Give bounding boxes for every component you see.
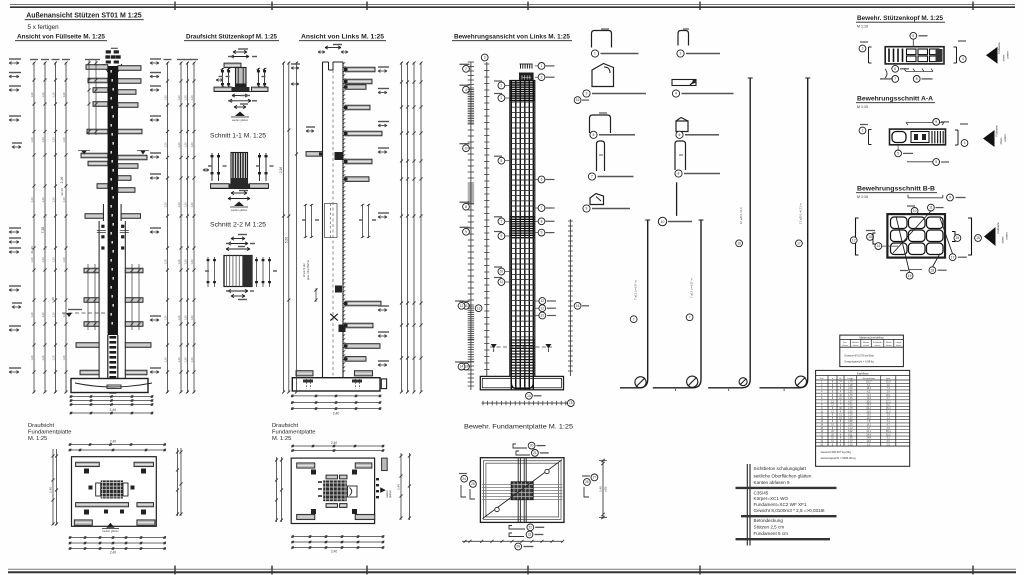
svg-text:1: 1 [501,84,503,88]
svg-text:7: 7 [541,206,543,210]
svg-text:9: 9 [541,231,543,235]
svg-text:16: 16 [976,236,980,240]
svg-text:21: 21 [533,451,537,455]
svg-text:7: 7 [591,175,593,179]
svg-text:25: 25 [471,482,475,486]
svg-text:27,2: 27,2 [886,401,891,403]
svg-text:glätten: glätten [389,490,392,498]
svg-text:1,20: 1,20 [51,355,55,361]
svg-text:6: 6 [894,67,896,71]
svg-text:30,6: 30,6 [866,401,871,403]
svg-text:M. 1:25: M. 1:25 [272,436,291,442]
svg-text:1,20: 1,20 [62,312,66,318]
svg-text:1,20: 1,20 [30,312,34,318]
svg-text:12: 12 [541,314,545,318]
svg-text:unten: unten [1004,232,1008,240]
svg-text:21,0: 21,0 [886,411,891,413]
svg-text:1,20: 1,20 [41,312,45,318]
svg-text:skizze: skizze [853,345,860,347]
svg-text:St.: St. [839,377,842,380]
svg-text:26: 26 [585,480,589,484]
svg-text:6: 6 [465,146,467,150]
svg-text:4: 4 [465,88,467,92]
svg-text:1,20: 1,20 [30,257,34,263]
svg-text:1,55: 1,55 [848,392,853,394]
svg-text:1,20: 1,20 [177,357,181,363]
svg-text:60,2: 60,2 [886,434,891,436]
svg-text:1,20: 1,20 [163,95,167,101]
svg-text:24,4: 24,4 [866,434,871,436]
svg-text:1,25: 1,25 [848,415,853,417]
svg-text:1,28: 1,28 [848,385,853,387]
svg-text:7: 7 [894,77,896,81]
svg-text:Gesamtgewicht = 0,98 kg: Gesamtgewicht = 0,98 kg [844,360,874,364]
svg-text:29,4: 29,4 [866,405,871,407]
svg-text:Anzahl: Anzahl [852,341,859,344]
svg-text:1,12: 1,12 [848,428,853,430]
svg-text:31,36: 31,36 [30,246,34,254]
svg-text:2,40: 2,40 [109,408,116,412]
svg-text:3: 3 [862,47,864,51]
svg-text:16: 16 [576,98,580,102]
svg-text:1,20: 1,20 [41,137,45,143]
svg-text:3: 3 [586,92,588,96]
svg-text:Gesamt=284,507 kg+5kg: Gesamt=284,507 kg+5kg [821,450,852,454]
svg-text:28: 28 [516,545,520,549]
svg-text:12: 12 [460,304,464,308]
svg-text:18,4: 18,4 [866,388,871,390]
svg-text:1,20: 1,20 [30,355,34,361]
svg-text:2: 2 [541,75,543,79]
svg-text:1,20: 1,20 [183,95,187,101]
svg-text:5 x fertigen: 5 x fertigen [28,24,60,31]
svg-text:4: 4 [962,57,964,61]
svg-text:1,72: 1,72 [848,441,853,443]
svg-text:1,20: 1,20 [163,357,167,363]
svg-text:2,40: 2,40 [333,412,340,416]
svg-text:skizze: skizze [842,345,849,347]
svg-text:Ansicht von Links M. 1:25: Ansicht von Links M. 1:25 [301,35,385,41]
svg-text:M. 1:25: M. 1:25 [28,436,47,442]
svg-text:15: 15 [569,401,573,405]
svg-text:131,7: 131,7 [866,382,872,384]
svg-text:unten: unten [1003,134,1007,142]
svg-text:8: 8 [916,77,918,81]
svg-text:9: 9 [465,230,467,234]
svg-text:2,40: 2,40 [397,484,401,490]
svg-text:Füllseite: Füllseite [996,222,1000,234]
svg-text:7: 7 [501,219,503,223]
svg-text:2: 2 [501,96,503,100]
svg-text:1,78: 1,78 [848,382,853,384]
svg-text:Gew.: Gew. [886,378,891,380]
svg-text:7: 7 [689,315,691,319]
svg-text:0,98: 0,98 [848,421,853,423]
svg-text:unten: unten [1006,51,1010,59]
svg-text:4: 4 [675,92,677,96]
svg-text:10: 10 [500,270,504,274]
svg-text:Körper=XC1 WO: Körper=XC1 WO [754,496,789,501]
svg-text:Breite: Breite [886,341,892,344]
svg-text:52,0: 52,0 [886,382,891,384]
svg-text:seitliche Oberflächen glätten: seitliche Oberflächen glätten [754,473,812,478]
svg-text:8: 8 [465,205,467,209]
svg-text:13: 13 [477,306,481,310]
svg-text:6,02: 6,02 [848,431,853,433]
svg-text:2: 2 [680,52,682,56]
svg-text:1: 1 [541,64,543,68]
svg-text:5: 5 [593,133,595,137]
svg-text:Bewehr. Stützenkopf M. 1:25: Bewehr. Stützenkopf M. 1:25 [857,15,944,22]
svg-text:2,40: 2,40 [599,486,603,492]
svg-text:1,20: 1,20 [51,312,55,318]
svg-text:1,20: 1,20 [62,257,66,263]
svg-text:1,78: 1,78 [848,408,853,410]
svg-text:2,40: 2,40 [49,487,53,493]
svg-text:4,37: 4,37 [848,401,853,403]
svg-text:1,12: 1,12 [848,418,853,420]
svg-text:2,40: 2,40 [331,441,337,445]
svg-text:Schnitt 1-1 M. 1:25: Schnitt 1-1 M. 1:25 [210,134,267,140]
svg-text:Fundament 5 cm: Fundament 5 cm [754,531,789,536]
svg-text:(40): (40) [604,486,608,491]
svg-text:1,20: 1,20 [183,142,187,148]
svg-text:1,20: 1,20 [51,257,55,263]
svg-text:5: 5 [501,159,503,163]
svg-text:11,2: 11,2 [867,418,872,420]
svg-text:12: 12 [852,238,856,242]
svg-text:Sichtbeton schalungsglatt: Sichtbeton schalungsglatt [754,466,807,471]
svg-text:15,0: 15,0 [866,415,871,417]
svg-text:8: 8 [678,172,680,176]
svg-text:1,20: 1,20 [183,315,187,321]
svg-text:9: 9 [935,160,937,164]
svg-text:9: 9 [501,234,503,238]
svg-text:2: 2 [862,129,864,133]
svg-text:1,20: 1,20 [30,137,34,143]
svg-text:15: 15 [956,236,960,240]
svg-text:1,20: 1,20 [177,95,181,101]
svg-text:9: 9 [586,207,588,211]
svg-text:1,20: 1,20 [190,315,194,321]
svg-text:Gesamt=5*0,078 qm/Stck: Gesamt=5*0,078 qm/Stck [844,354,874,358]
svg-text:Bewehr. Fundamentplatte M. 1:2: Bewehr. Fundamentplatte M. 1:25 [464,425,574,431]
svg-text:17 ø20 L=6,11 m: 17 ø20 L=6,11 m [799,202,803,224]
svg-text:7 ø12 L=4,37 m: 7 ø12 L=4,37 m [689,278,693,298]
svg-text:5: 5 [897,152,899,156]
svg-text:1,20: 1,20 [190,357,194,363]
svg-text:64,1: 64,1 [866,408,871,410]
svg-text:1,20: 1,20 [41,197,45,203]
svg-text:1,20: 1,20 [51,137,55,143]
svg-text:1,20: 1,20 [51,297,55,303]
svg-text:2,40: 2,40 [331,550,337,554]
svg-text:Fundamentplatte: Fundamentplatte [28,430,72,436]
svg-text:4,20: 4,20 [848,405,853,407]
svg-text:1,20: 1,20 [183,357,187,363]
svg-text:1,20: 1,20 [62,355,66,361]
svg-text:9: 9 [949,196,951,200]
svg-text:sauber glätten: sauber glätten [232,118,249,122]
svg-text:1: 1 [594,52,596,56]
svg-text:Pos.: Pos. [820,378,825,380]
svg-text:8: 8 [541,219,543,223]
svg-text:Gewicht 8,0100m3 * 2,5 =>0,03: Gewicht 8,0100m3 * 2,5 =>0,0316t [754,508,826,513]
svg-text:Mattenschneideliste: Mattenschneideliste [859,336,884,340]
svg-text:1,20: 1,20 [183,202,187,208]
svg-text:1,20: 1,20 [177,142,181,148]
svg-text:1,20: 1,20 [62,137,66,143]
svg-text:13,8: 13,8 [866,441,871,443]
svg-text:1,20: 1,20 [177,202,181,208]
svg-text:Schneide-: Schneide- [873,342,883,344]
svg-text:22: 22 [529,525,533,529]
svg-text:7 ø12 L=4,37 m: 7 ø12 L=4,37 m [634,280,638,300]
svg-text:14: 14 [527,394,531,398]
svg-text:32,16: 32,16 [60,188,64,196]
svg-text:28,1: 28,1 [886,395,891,397]
svg-text:Länge: Länge [896,342,903,344]
svg-text:Draufsicht Stützenkopf M. 1:25: Draufsicht Stützenkopf M. 1:25 [186,35,278,41]
svg-text:16: 16 [576,304,580,308]
svg-text:1,20: 1,20 [163,315,167,321]
svg-text:14: 14 [460,365,464,369]
svg-text:27: 27 [593,476,597,480]
svg-text:M 1:10: M 1:10 [857,105,868,109]
svg-text:14: 14 [877,244,881,248]
svg-text:7: 7 [633,317,635,321]
svg-text:1,20: 1,20 [163,259,167,265]
svg-text:Fundament=XC2 WF XF1: Fundament=XC2 WF XF1 [754,502,807,507]
svg-text:2: 2 [465,67,467,71]
svg-text:Bewehrungsschnitt A-A: Bewehrungsschnitt A-A [857,96,934,103]
svg-text:3: 3 [964,141,966,145]
svg-text:9: 9 [935,120,937,124]
svg-text:13: 13 [868,235,872,239]
svg-text:24,1: 24,1 [866,431,871,433]
svg-text:14,8: 14,8 [866,438,871,440]
svg-text:14,1: 14,1 [866,425,871,427]
svg-text:Draufsicht: Draufsicht [28,423,54,429]
svg-text:12: 12 [541,299,545,303]
svg-text:gew. Oberfläche: gew. Oberfläche [306,259,310,280]
svg-text:2,30: 2,30 [848,388,853,390]
svg-text:Füllseite: Füllseite [997,42,1001,54]
svg-text:1,20: 1,20 [183,259,187,265]
svg-text:17: 17 [797,241,801,245]
svg-text:1,78: 1,78 [848,395,853,397]
svg-text:5: 5 [912,34,914,38]
svg-text:skizze: skizze [863,345,870,347]
svg-text:11: 11 [929,206,933,210]
svg-text:23,6: 23,6 [866,411,871,413]
svg-text:1,20: 1,20 [30,197,34,203]
svg-text:Ansicht von Füllseite M. 1:25: Ansicht von Füllseite M. 1:25 [17,35,106,41]
svg-text:C35/45: C35/45 [754,491,769,496]
svg-text:2,40: 2,40 [110,440,116,444]
svg-text:5,90: 5,90 [848,411,853,413]
svg-text:Stützen 2,5 cm: Stützen 2,5 cm [754,525,785,530]
svg-text:26,1: 26,1 [886,405,891,407]
svg-text:3: 3 [484,56,486,60]
svg-text:Außenansicht Stützen ST01 M 1:: Außenansicht Stützen ST01 M 1:25 [26,13,142,20]
svg-text:25,3: 25,3 [886,408,891,410]
svg-text:M 1:10: M 1:10 [857,195,868,199]
svg-text:1,20: 1,20 [51,197,55,203]
svg-text:7,36: 7,36 [41,227,45,234]
svg-text:2,35: 2,35 [848,425,853,427]
svg-text:Betondeckung: Betondeckung [754,518,784,523]
svg-text:Matten: Matten [863,341,870,344]
svg-text:59,4: 59,4 [886,431,891,433]
svg-text:Schnitt 2-2 M 1:25: Schnitt 2-2 M 1:25 [210,223,267,229]
svg-text:14,5: 14,5 [866,398,871,400]
svg-text:Stahlliste: Stahlliste [857,371,869,375]
svg-text:24: 24 [462,477,466,481]
svg-text:16: 16 [737,241,741,245]
svg-text:10: 10 [913,209,917,213]
svg-text:sauber glätten: sauber glätten [102,529,119,533]
svg-text:1,20: 1,20 [190,142,194,148]
svg-text:Pos.: Pos. [843,342,848,344]
svg-text:1,20: 1,20 [163,202,167,208]
svg-text:1,20: 1,20 [190,95,194,101]
svg-text:1,20: 1,20 [177,259,181,265]
svg-text:6: 6 [679,133,681,137]
svg-text:Füllseite: Füllseite [995,125,999,137]
svg-text:12: 12 [541,306,545,310]
svg-text:23: 23 [528,533,532,537]
svg-text:5,56: 5,56 [285,237,289,243]
svg-text:1,20: 1,20 [177,315,181,321]
svg-text:skizze: skizze [886,345,893,347]
svg-text:17: 17 [951,255,955,259]
svg-text:16 ø20 L=6,0: 16 ø20 L=6,0 [739,207,743,224]
svg-text:M 1:10: M 1:10 [857,25,868,29]
svg-text:71,2: 71,2 [866,395,871,397]
svg-text:2,40: 2,40 [110,551,116,555]
svg-text:Gesamtgewicht = 0289,98 kg: Gesamtgewicht = 0289,98 kg [821,456,856,460]
svg-text:Länge: Länge [847,378,854,380]
svg-text:skizze: skizze [896,345,903,347]
svg-text:1,20: 1,20 [51,92,55,98]
svg-text:11: 11 [500,280,504,284]
svg-text:1,45: 1,45 [848,398,853,400]
svg-text:20: 20 [530,444,534,448]
svg-text:1,20: 1,20 [163,142,167,148]
svg-text:Bewehrungsansicht von Links M.: Bewehrungsansicht von Links M. 1:25 [454,35,571,41]
svg-text:Bewehrungsschnitt B-B: Bewehrungsschnitt B-B [857,186,936,193]
svg-text:Gesamtlänge: Gesamtlänge [863,377,876,380]
svg-text:1,20: 1,20 [62,92,66,98]
svg-text:Kanten abfasen 9: Kanten abfasen 9 [754,480,790,485]
svg-text:1,20: 1,20 [30,92,34,98]
svg-text:1,20: 1,20 [41,257,45,263]
svg-text:6,11: 6,11 [848,434,853,436]
svg-text:2,16: 2,16 [60,177,64,184]
svg-text:1,20: 1,20 [190,202,194,208]
svg-text:1,20: 1,20 [41,92,45,98]
svg-text:6: 6 [541,178,543,182]
svg-text:1,85: 1,85 [848,438,853,440]
svg-text:10: 10 [661,220,665,224]
svg-text:Draufsicht: Draufsicht [272,423,298,429]
svg-text:Fundamentplatte: Fundamentplatte [272,430,316,436]
svg-text:1,20: 1,20 [62,197,66,203]
svg-text:18: 18 [931,268,935,272]
svg-text:skizze: skizze [875,345,882,347]
svg-text:1,20: 1,20 [41,355,45,361]
svg-text:19: 19 [908,274,912,278]
svg-text:sauber glätten: sauber glätten [231,208,248,212]
svg-text:2,16: 2,16 [279,167,283,173]
svg-text:1,20: 1,20 [190,259,194,265]
